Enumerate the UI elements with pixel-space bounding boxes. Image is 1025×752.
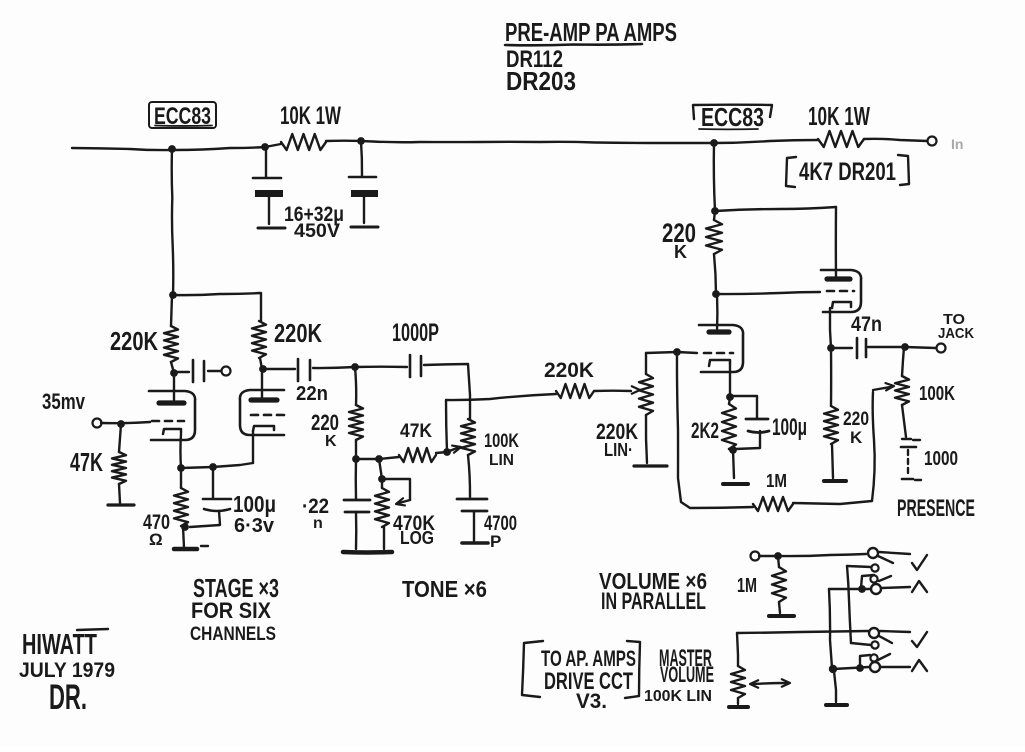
svg-text:1M: 1M bbox=[737, 575, 757, 597]
svg-text:JACK: JACK bbox=[938, 325, 974, 342]
svg-text:K: K bbox=[674, 242, 687, 262]
svg-text:220K: 220K bbox=[544, 359, 594, 382]
svg-text:22n: 22n bbox=[296, 383, 328, 405]
svg-text:K: K bbox=[850, 428, 863, 447]
svg-text:1000P: 1000P bbox=[392, 319, 439, 347]
svg-text:100K: 100K bbox=[484, 431, 519, 452]
svg-text:1M: 1M bbox=[766, 471, 787, 491]
svg-text:PRE-AMP PA AMPS: PRE-AMP PA AMPS bbox=[505, 17, 677, 47]
svg-text:220K: 220K bbox=[110, 326, 158, 356]
svg-text:47n: 47n bbox=[851, 313, 882, 336]
svg-text:47K: 47K bbox=[70, 447, 103, 477]
svg-text:220K: 220K bbox=[274, 318, 322, 348]
svg-text:ECC83: ECC83 bbox=[701, 102, 764, 132]
svg-text:100K: 100K bbox=[919, 383, 955, 405]
svg-text:220: 220 bbox=[311, 410, 339, 435]
svg-text:10K 1W: 10K 1W bbox=[808, 101, 870, 131]
svg-text:6·3v: 6·3v bbox=[234, 515, 275, 537]
svg-text:DR.: DR. bbox=[49, 678, 87, 717]
svg-text:LOG: LOG bbox=[400, 528, 434, 548]
svg-text:47K: 47K bbox=[400, 421, 432, 442]
svg-text:HIWATT: HIWATT bbox=[22, 629, 97, 661]
svg-text:P: P bbox=[490, 532, 501, 551]
svg-text:2K2: 2K2 bbox=[691, 418, 719, 443]
svg-text:4K7 DR201: 4K7 DR201 bbox=[799, 158, 896, 186]
svg-text:VOLUME: VOLUME bbox=[660, 662, 714, 687]
svg-text:CHANNELS: CHANNELS bbox=[190, 624, 276, 645]
svg-text:1000: 1000 bbox=[924, 448, 958, 470]
svg-text:100μ: 100μ bbox=[233, 491, 276, 517]
svg-text:35mv: 35mv bbox=[42, 389, 86, 414]
svg-text:FOR SIX: FOR SIX bbox=[191, 598, 271, 623]
svg-text:K: K bbox=[325, 433, 337, 450]
svg-text:100K LIN: 100K LIN bbox=[644, 688, 712, 705]
svg-text:450V: 450V bbox=[294, 221, 340, 242]
svg-text:Ω: Ω bbox=[149, 530, 163, 549]
svg-text:10K 1W: 10K 1W bbox=[280, 102, 341, 130]
svg-text:220: 220 bbox=[843, 409, 869, 430]
svg-text:n: n bbox=[313, 515, 323, 532]
svg-text:100μ: 100μ bbox=[772, 414, 807, 441]
svg-text:LIN: LIN bbox=[489, 452, 514, 469]
svg-text:PRESENCE: PRESENCE bbox=[897, 495, 975, 522]
svg-text:DR203: DR203 bbox=[506, 66, 576, 96]
svg-text:TONE ×6: TONE ×6 bbox=[402, 576, 487, 602]
svg-text:IN PARALLEL: IN PARALLEL bbox=[601, 588, 706, 615]
svg-text:V3.: V3. bbox=[576, 690, 607, 713]
svg-text:LIN·: LIN· bbox=[604, 440, 633, 460]
svg-text:In: In bbox=[951, 136, 963, 152]
